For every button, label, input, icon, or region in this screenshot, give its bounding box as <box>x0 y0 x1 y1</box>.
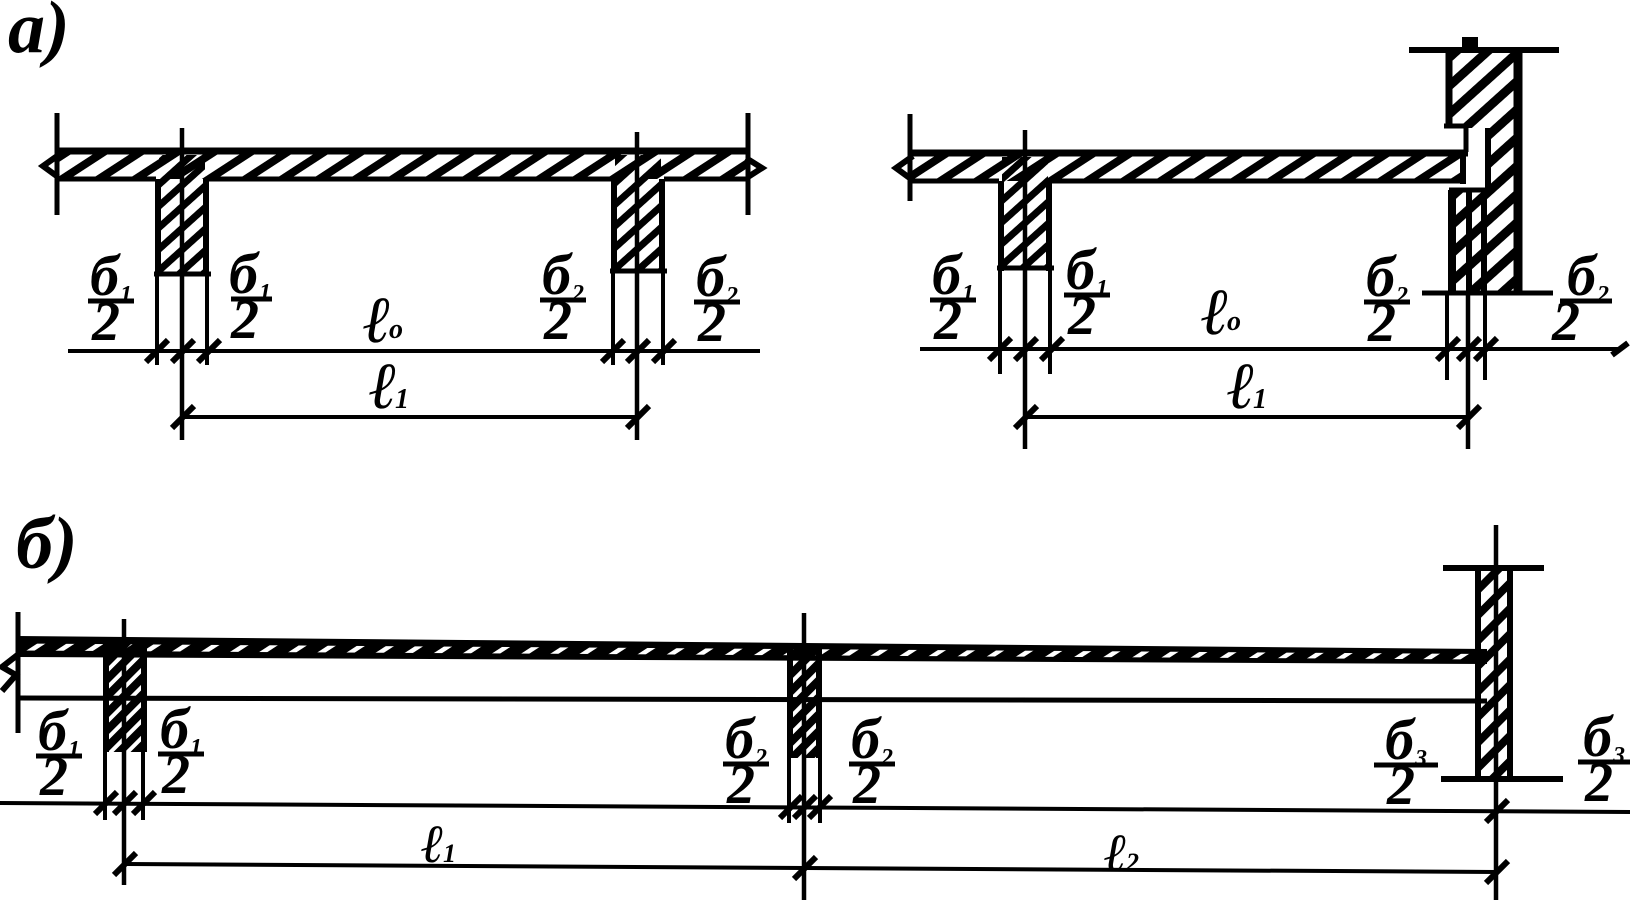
fraction b3/2 right inner <box>1374 707 1438 817</box>
fraction b1/2 left outer <box>36 698 82 808</box>
svg-text:1: 1 <box>443 839 456 868</box>
svg-text:2: 2 <box>1584 752 1613 814</box>
fraction b2/2 middle right <box>849 706 895 816</box>
support S2 right edge <box>816 646 822 758</box>
label l0 <box>1201 276 1241 349</box>
tick at 804 <box>794 796 816 818</box>
label l1 <box>421 814 456 874</box>
rib R1 right extension line <box>205 276 209 365</box>
svg-text:2: 2 <box>571 281 584 307</box>
fraction b2/2 wall right <box>1551 243 1612 353</box>
rib R2 center line <box>635 132 640 440</box>
svg-text:а): а) <box>8 0 70 69</box>
column hatch <box>1478 568 1510 779</box>
tick at 663 <box>653 340 675 362</box>
wall joint vertical above slab <box>1464 126 1469 152</box>
svg-text:2: 2 <box>754 745 767 771</box>
wall hatch strip behind slab <box>1490 128 1514 192</box>
slab hatch <box>57 152 748 179</box>
wall upper block hatch <box>1449 52 1515 128</box>
rib R2 hatch <box>615 155 661 270</box>
tick at 790 <box>780 796 802 818</box>
fraction b2/2 wall left <box>1364 244 1410 354</box>
slab end line at wall <box>1460 150 1466 184</box>
l1 dimension line <box>1025 415 1468 419</box>
tick at 1051 <box>1041 338 1063 360</box>
l1 tick left <box>1015 406 1037 428</box>
wall top bump <box>1462 37 1478 50</box>
left break vertical <box>16 612 21 733</box>
tick at 1447 <box>1437 338 1459 360</box>
fraction b1/2 inner left <box>229 241 272 351</box>
wall extension line left <box>1445 293 1449 380</box>
main dimension line <box>0 803 1630 812</box>
tick at 999 <box>989 338 1011 360</box>
tick at 143 <box>133 792 155 814</box>
svg-text:1: 1 <box>1096 276 1108 302</box>
wall ledge upper <box>1444 124 1465 129</box>
rib R1 bottom line <box>154 272 211 277</box>
rib R3 left extension line <box>998 271 1002 374</box>
slab strip black band <box>18 636 1487 664</box>
tick at 1025 <box>1015 338 1037 360</box>
rib R3 right extension line <box>1048 271 1052 374</box>
dim end tick <box>1612 343 1628 355</box>
rib R2 left edge <box>611 179 617 273</box>
tick at 105 <box>95 792 117 814</box>
svg-text:2: 2 <box>933 290 962 352</box>
slab bottom line left <box>57 177 156 182</box>
slab hatch <box>910 154 1466 181</box>
rib R3 center line <box>1023 130 1028 449</box>
svg-text:2: 2 <box>880 745 893 771</box>
rib R2 right edge <box>659 179 665 273</box>
tick at 124 <box>114 792 136 814</box>
wall notch face <box>1485 128 1491 192</box>
slab top line <box>55 148 750 155</box>
rib R3 hatch <box>1002 157 1048 269</box>
l dimension line <box>124 864 1496 872</box>
svg-text:1: 1 <box>68 737 80 763</box>
wall extension line right <box>1483 293 1487 380</box>
support S1 hatch <box>105 641 145 752</box>
fraction b1/2 left <box>930 242 976 352</box>
fraction b1/2 left inner <box>158 696 204 806</box>
wall bottom line <box>1422 291 1553 296</box>
svg-text:1: 1 <box>259 280 271 306</box>
svg-text:2: 2 <box>230 289 259 351</box>
svg-text:ℓ: ℓ <box>1201 276 1229 349</box>
wall lower face line 3 <box>1481 190 1487 293</box>
fraction b3/2 right outer <box>1578 704 1630 814</box>
svg-text:2: 2 <box>161 744 190 806</box>
rib R1 right edge <box>203 179 209 276</box>
label l1 <box>369 350 409 423</box>
slab strip white hatch <box>18 644 1487 660</box>
l tick left <box>114 853 136 875</box>
fraction b1/2 right <box>1064 237 1110 347</box>
l1 tick right <box>627 406 649 428</box>
svg-text:3: 3 <box>1612 743 1625 769</box>
left cut tick <box>55 113 60 215</box>
svg-text:о: о <box>389 314 403 345</box>
fraction b1/2 far left <box>88 243 134 353</box>
wall upper left face <box>1446 50 1453 128</box>
rib R1 center line <box>180 128 185 440</box>
tick at 1468 <box>1458 338 1480 360</box>
rib R3 right edge <box>1046 181 1052 271</box>
support S2 left edge <box>787 645 793 758</box>
wall top line <box>1409 47 1559 53</box>
support S1 left edge <box>103 639 109 752</box>
svg-text:о: о <box>1227 306 1241 337</box>
left cut tick <box>908 114 913 201</box>
rib R2 right extension line <box>661 273 665 365</box>
wall right face <box>1514 50 1523 291</box>
fraction b2/2 far right <box>694 244 740 354</box>
right cut tick <box>746 113 751 215</box>
l1 tick right <box>1458 406 1480 428</box>
column center line <box>1494 525 1499 900</box>
main dimension line <box>920 347 1622 351</box>
rib R1 hatch <box>159 155 205 273</box>
svg-text:2: 2 <box>852 754 881 816</box>
column top flange <box>1443 565 1544 571</box>
support S1 right edge <box>141 640 147 752</box>
beam bottom line <box>18 698 1487 701</box>
wall bearing center line <box>1466 293 1471 449</box>
l1 dimension line <box>182 415 637 419</box>
rib R2 left extension line <box>611 273 615 365</box>
svg-text:1: 1 <box>120 282 132 308</box>
svg-text:3: 3 <box>1414 746 1427 772</box>
main dimension line <box>68 349 760 353</box>
l tick right <box>1486 861 1508 883</box>
rib R1 left edge <box>155 179 161 276</box>
svg-text:2: 2 <box>91 291 120 353</box>
column bottom flange <box>1441 776 1563 782</box>
tick at 819 <box>809 796 831 818</box>
slab bottom line left <box>910 179 999 184</box>
svg-text:2: 2 <box>543 290 572 352</box>
slab bottom line right <box>664 177 748 182</box>
l tick middle <box>794 857 816 879</box>
rib R2 bottom line <box>610 269 667 274</box>
slab top line <box>908 150 1468 157</box>
svg-text:ℓ: ℓ <box>1227 350 1255 423</box>
tick at 1485 <box>1475 338 1497 360</box>
left cut hook <box>896 156 913 179</box>
svg-text:2: 2 <box>1551 291 1580 353</box>
rib R3 bottom line <box>997 266 1054 271</box>
svg-text:2: 2 <box>697 292 726 354</box>
column right edge <box>1507 568 1513 779</box>
tick at 612 <box>602 340 624 362</box>
support S1 left extension <box>103 752 107 820</box>
tick at 208 <box>198 340 220 362</box>
svg-text:ℓ: ℓ <box>421 814 444 874</box>
label l0 <box>363 284 403 357</box>
wall lower face line 2 <box>1466 190 1472 293</box>
svg-text:ℓ: ℓ <box>363 284 391 357</box>
svg-text:1: 1 <box>1253 384 1267 415</box>
slab bottom line middle <box>208 177 612 182</box>
tick at 182 <box>172 340 194 362</box>
svg-text:ℓ: ℓ <box>1104 823 1127 883</box>
column left edge <box>1475 568 1481 779</box>
tick at 637 <box>627 340 649 362</box>
rib R1 left extension line <box>155 276 159 365</box>
support S1 right extension <box>141 752 145 820</box>
support S2 hatch <box>790 646 820 758</box>
svg-text:б): б) <box>16 503 78 585</box>
wall ledge lower <box>1449 188 1488 193</box>
support S2 right extension <box>818 758 822 823</box>
svg-text:2: 2 <box>725 283 738 309</box>
tick at 156 <box>146 340 168 362</box>
support S2 center line <box>802 613 807 900</box>
fraction b2/2 middle left <box>723 706 769 816</box>
label l1 <box>1227 350 1267 423</box>
support S1 center line <box>122 619 127 885</box>
svg-text:2: 2 <box>1395 283 1408 309</box>
svg-text:2: 2 <box>39 746 68 808</box>
wall lower face line 1 <box>1448 190 1456 293</box>
tick at 1496 <box>1486 800 1508 822</box>
svg-text:2: 2 <box>1596 282 1609 308</box>
svg-text:1: 1 <box>962 281 974 307</box>
svg-text:2: 2 <box>726 754 755 816</box>
svg-text:ℓ: ℓ <box>369 350 397 423</box>
left break zigzag <box>2 653 20 691</box>
wall lower hatch <box>1450 192 1516 292</box>
left cut hook <box>43 154 60 177</box>
l1 tick left <box>172 406 194 428</box>
svg-text:1: 1 <box>395 384 409 415</box>
svg-text:2: 2 <box>1067 285 1096 347</box>
fraction b2/2 inner right <box>540 242 586 352</box>
svg-text:1: 1 <box>190 735 202 761</box>
rib R3 left edge <box>998 181 1004 271</box>
support S2 left extension <box>787 758 791 823</box>
right cut hook <box>746 158 762 177</box>
svg-text:2: 2 <box>1125 848 1139 877</box>
svg-text:2: 2 <box>1367 292 1396 354</box>
svg-text:2: 2 <box>1386 755 1415 817</box>
label l2 <box>1104 823 1139 883</box>
slab bottom line middle <box>1051 179 1463 184</box>
